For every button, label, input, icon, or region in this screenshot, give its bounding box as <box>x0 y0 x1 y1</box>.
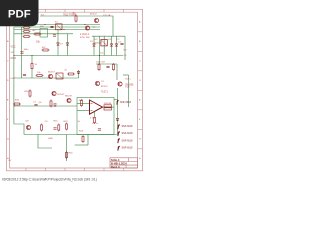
wire elbow left bus to bottom <box>14 124 24 135</box>
diode D10 <box>77 71 80 73</box>
frame outer border <box>7 9 143 171</box>
wire stub x128 top <box>123 74 129 76</box>
op-amp U1 <box>90 100 103 114</box>
wire R5 stub bottom <box>31 70 33 78</box>
page background <box>0 0 149 198</box>
wire op-amp in- <box>77 110 90 112</box>
wire op-amp in+ <box>77 103 90 105</box>
resistor R9 <box>67 73 75 75</box>
wire drop x117 <box>116 64 118 80</box>
svg-text:09/03/2012 2:58p C:\Users\WKP\: 09/03/2012 2:58p C:\Users\WKP\Projects\V… <box>2 178 97 182</box>
wire ladder top <box>92 35 125 37</box>
resistor R19 <box>66 123 68 131</box>
resistor R11 <box>50 100 52 108</box>
wire top rail <box>40 16 113 36</box>
approval entry 3 <box>118 138 134 144</box>
wire R12 stub <box>94 112 96 116</box>
frame column tick marks bottom <box>26 168 124 171</box>
svg-text:100u: 100u <box>24 49 30 51</box>
resistor R14 <box>41 124 43 132</box>
wire left bus vertical <box>13 27 15 124</box>
diode D2 <box>110 44 113 46</box>
wire rail y34 <box>14 33 73 35</box>
svg-text:SNF-6018: SNF-6018 <box>120 101 132 104</box>
diode D3 <box>115 44 118 46</box>
svg-text:G: G <box>7 139 9 141</box>
transistor Q9 <box>52 91 65 96</box>
svg-text:470u 1N4: 470u 1N4 <box>80 37 90 39</box>
diode D8 <box>66 43 69 45</box>
svg-text:GND: GND <box>11 57 17 60</box>
relay K1 <box>56 24 63 30</box>
transistor Q5 power <box>118 82 134 87</box>
wire rail y78 <box>14 77 79 79</box>
frame row tick marks right <box>138 32 143 149</box>
approval entry 0 <box>117 101 132 106</box>
transistor Q10 <box>95 81 108 88</box>
diode D4 <box>54 104 57 106</box>
frame inner border <box>10 12 138 168</box>
diode D1 <box>93 44 96 46</box>
svg-text:S.No.4: S.No.4 <box>111 158 120 162</box>
transistor Q7 <box>67 98 71 102</box>
capacitor C7 <box>34 104 37 105</box>
svg-text:BC557: BC557 <box>48 72 55 74</box>
wire right vertical x128 <box>128 75 130 107</box>
wire ladder rung 4 <box>111 36 113 55</box>
wire vertical x71.5 <box>67 34 69 56</box>
mid cluster R6 R7 C5 <box>96 62 115 72</box>
svg-text:BD139: BD139 <box>65 96 72 98</box>
svg-text:Rev1.0: Rev1.0 <box>111 165 120 169</box>
resistor R13 below box <box>82 135 84 143</box>
transistor Q2 <box>94 18 98 22</box>
diode D6 <box>116 118 119 120</box>
diode D5 <box>104 103 112 110</box>
svg-text:7812 TO220: 7812 TO220 <box>63 14 77 17</box>
wire branch vertical x21 <box>21 27 23 78</box>
resistor R1 <box>73 13 78 23</box>
wire rail y55 <box>14 55 123 57</box>
svg-text:1N4007: 1N4007 <box>94 43 102 45</box>
wire drop x98 <box>99 56 101 65</box>
frame row letters <box>7 21 141 161</box>
approval entry 2 <box>118 131 134 137</box>
capacitor C4 <box>20 52 23 53</box>
title block text <box>111 158 127 169</box>
resistor R2 <box>34 33 42 35</box>
svg-text:SNF-6018: SNF-6018 <box>122 147 134 150</box>
PDF badge <box>0 0 39 26</box>
resistor R8 <box>36 75 44 77</box>
wire ladder rung 5 <box>116 36 118 55</box>
op-amp box U1 outline <box>77 98 114 135</box>
capacitor C9 <box>53 128 56 129</box>
resistor R10 <box>13 103 21 105</box>
svg-text:2 (C)A-1: 2 (C)A-1 <box>80 33 90 36</box>
approval entry 4 <box>118 145 134 151</box>
svg-text:BC547: BC547 <box>90 14 97 16</box>
resistor R15 <box>58 124 60 132</box>
svg-text:C8 1u: C8 1u <box>92 123 99 125</box>
pot P1 <box>56 73 63 79</box>
rectifier B2 <box>101 40 107 46</box>
resistor R4 <box>42 49 50 51</box>
wire ladder rung 2 <box>99 36 101 55</box>
svg-text:12V 2A: 12V 2A <box>103 14 111 17</box>
svg-text:G: G <box>139 139 141 141</box>
wire mid cluster rail <box>96 63 117 65</box>
svg-text:TL071: TL071 <box>101 91 108 94</box>
wire drop x88 below box <box>87 135 89 146</box>
title block <box>110 158 138 168</box>
wire vertical x58 <box>57 30 59 56</box>
capacitor C6 <box>23 74 26 75</box>
wire drop x66 <box>66 135 68 162</box>
svg-text:3 2 6: 3 2 6 <box>90 118 96 120</box>
svg-text:BC547: BC547 <box>58 94 65 96</box>
capacitor C3 <box>120 43 123 44</box>
svg-text:OUT+: OUT+ <box>125 79 132 81</box>
transistor Q4 <box>48 74 52 78</box>
wire rail y106 <box>14 105 77 107</box>
transistor Q8 <box>26 125 30 129</box>
junction dots on rails <box>13 24 100 107</box>
svg-text:1N4148: 1N4148 <box>104 103 112 105</box>
resistor R16 <box>66 151 68 159</box>
capacitor C2 <box>53 35 56 36</box>
wire ladder rung 6 <box>124 36 126 60</box>
frame column tick marks top <box>26 9 124 12</box>
svg-text:BC557: BC557 <box>101 86 108 88</box>
wire drop x43 <box>38 135 52 149</box>
diode D7 <box>57 43 60 45</box>
wire bottom rail y134 <box>24 134 118 136</box>
wire ladder rung 1 <box>93 36 95 55</box>
connector stack X1 <box>23 27 31 38</box>
wire ladder rung 3 <box>103 36 105 55</box>
svg-text:SNF-6018: SNF-6018 <box>122 132 134 135</box>
wire supply rail B <box>14 24 100 26</box>
resistor R18 <box>25 90 32 98</box>
wire supply rail C <box>14 26 100 28</box>
svg-text:PDF: PDF <box>8 9 31 21</box>
svg-text:OUT-: OUT- <box>125 87 130 89</box>
wire box feed <box>114 99 118 101</box>
capacitor C8 <box>98 129 101 130</box>
wire supply rail D <box>14 29 100 31</box>
svg-text:AC: AC <box>33 29 36 32</box>
approval entry 1 <box>118 124 134 130</box>
capacitor C1 <box>50 26 53 27</box>
resistor R12 <box>94 116 96 124</box>
resistor R5 <box>31 62 33 70</box>
svg-text:GND: GND <box>48 138 53 140</box>
svg-text:100n 4k7: 100n 4k7 <box>96 62 106 64</box>
wire y145 stub <box>75 144 88 146</box>
wire op-amp out <box>103 106 115 108</box>
bridge rectifier B1 <box>40 29 48 38</box>
svg-text:VCC: VCC <box>11 46 16 49</box>
transistor Q1 <box>85 26 89 30</box>
wire rail y78 end stub <box>78 70 80 78</box>
wire R5 stub top <box>31 56 33 63</box>
svg-text:SNF-6018: SNF-6018 <box>122 139 134 142</box>
svg-text:12V: 12V <box>11 52 15 54</box>
resistor R17 <box>81 99 83 107</box>
wire vertical x122 <box>117 88 119 134</box>
svg-text:SNF-6018: SNF-6018 <box>122 125 134 128</box>
